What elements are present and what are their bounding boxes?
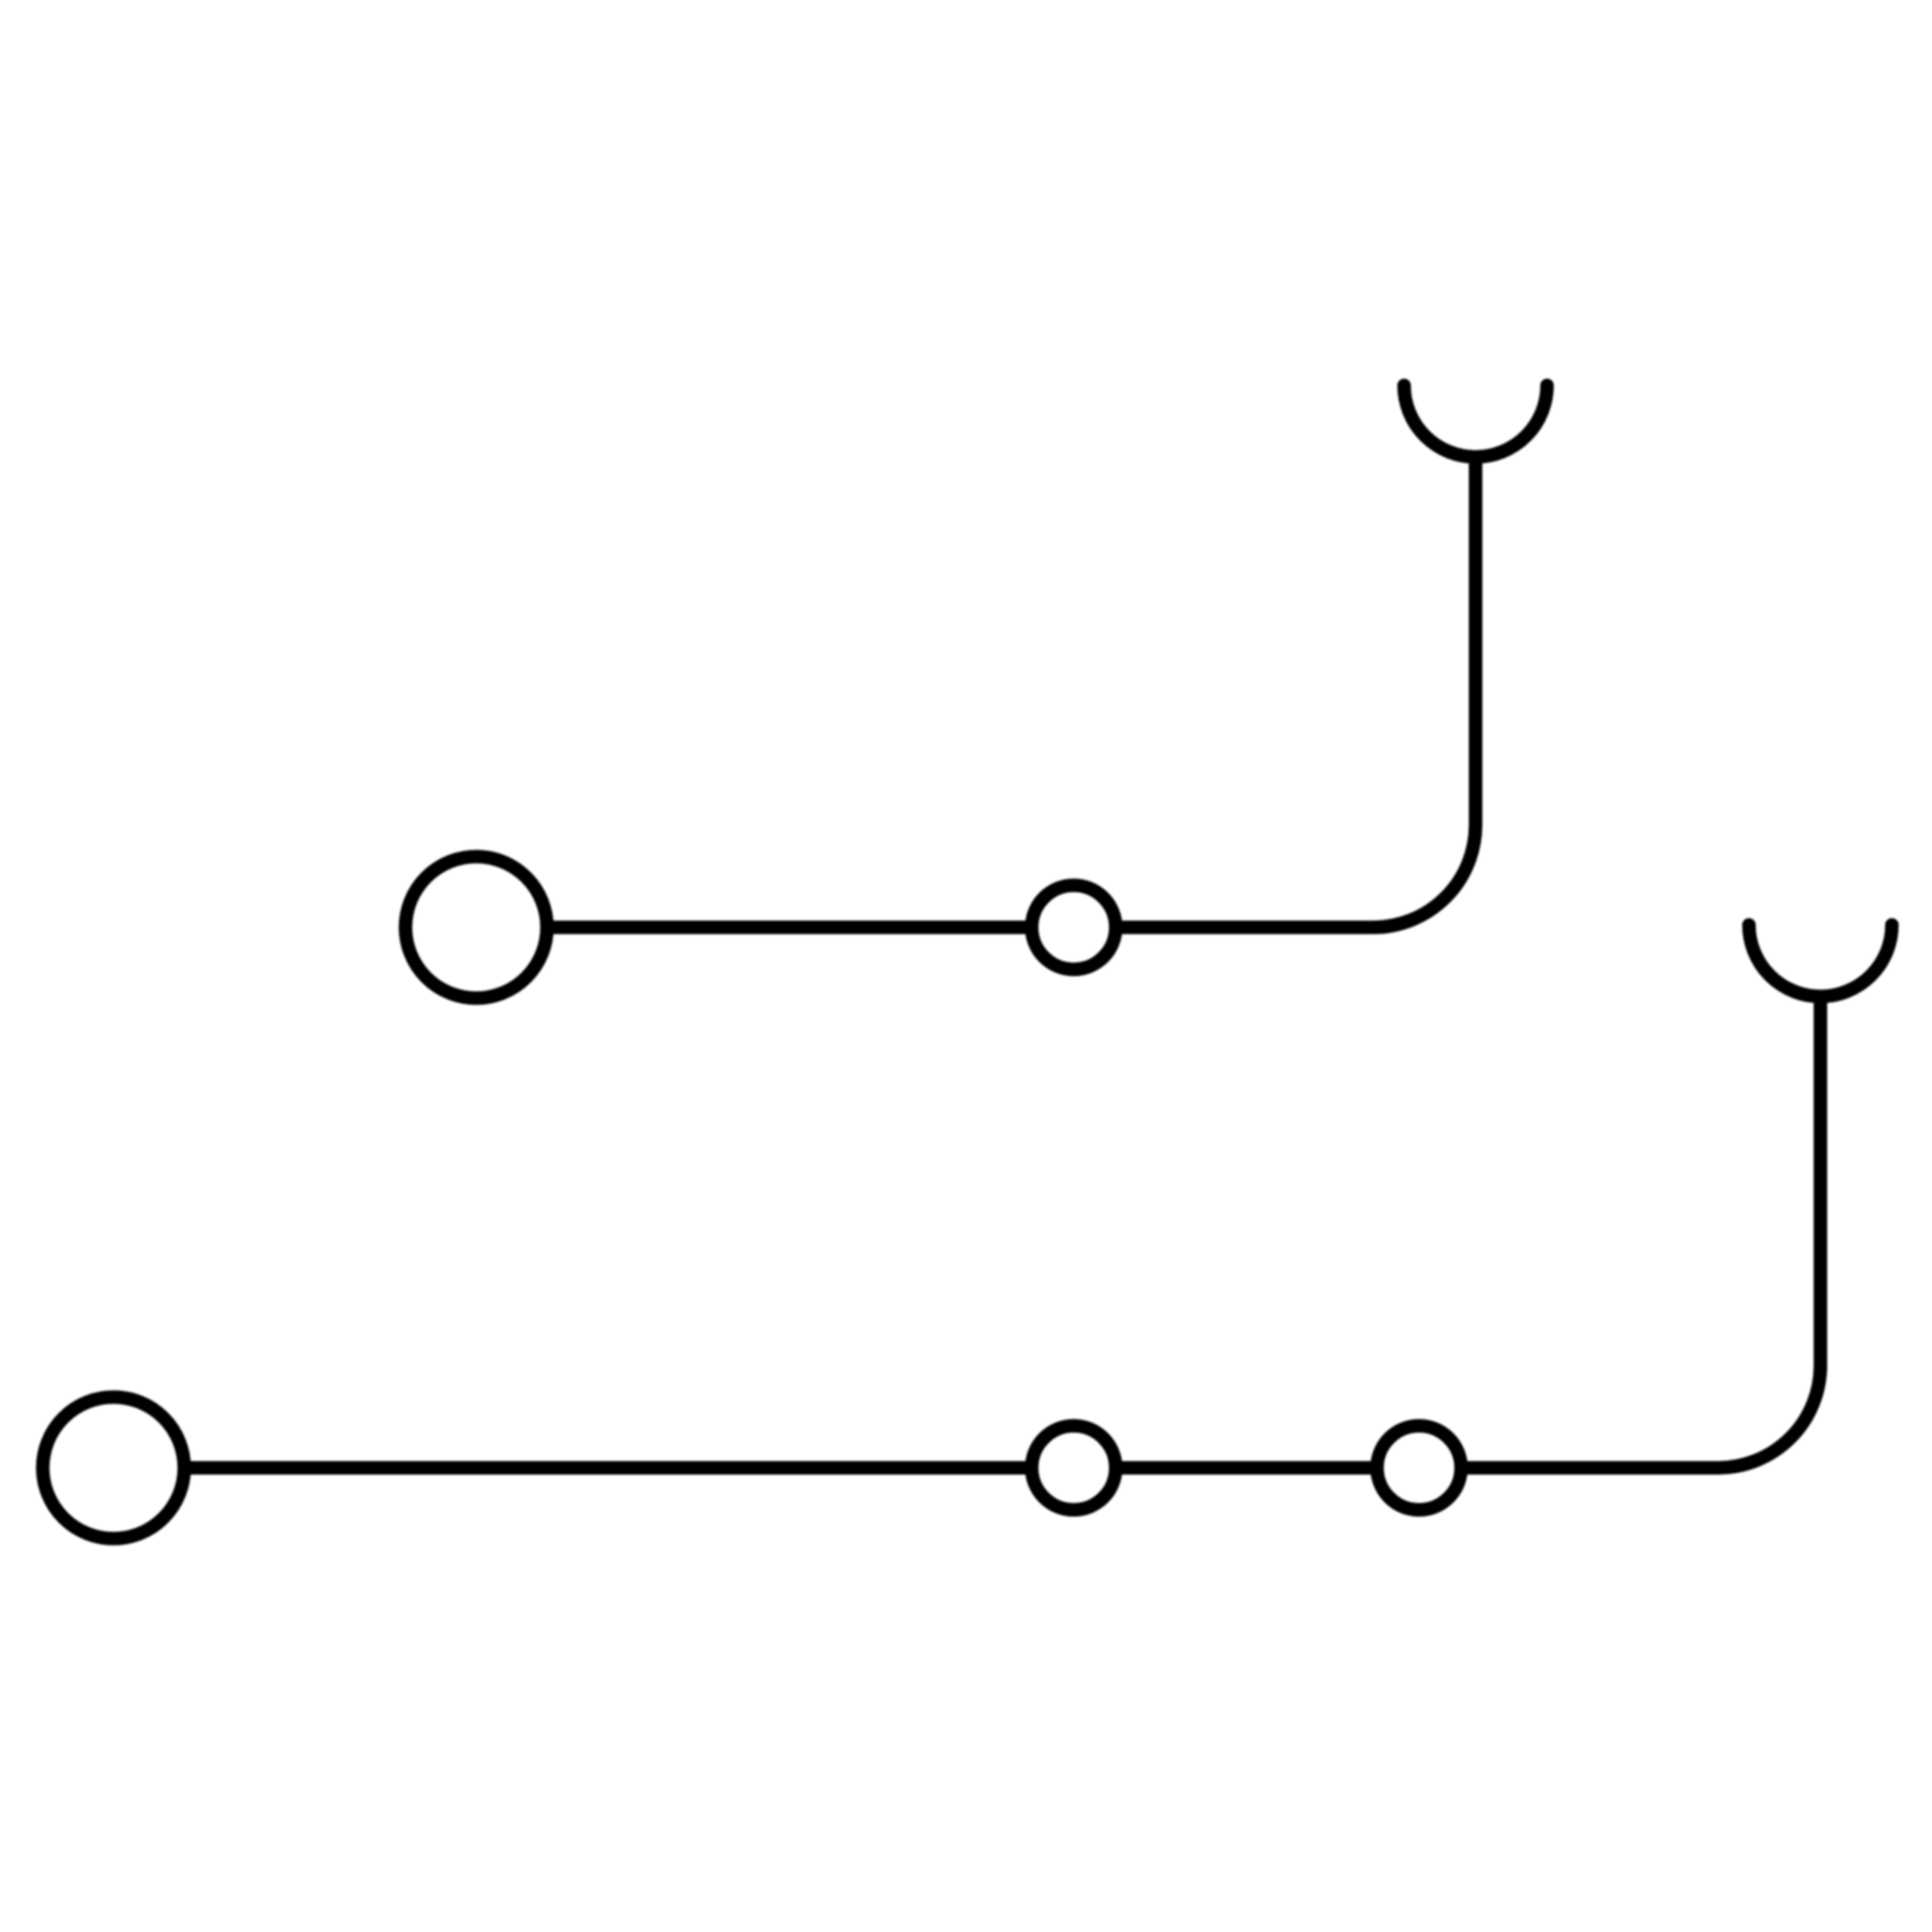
plug socket fork (lower level), open-up semicircle xyxy=(1749,925,1892,997)
terminal screw circle (large, lower level) xyxy=(43,1397,185,1539)
test/tap point circle (small, upper level) xyxy=(1032,886,1116,970)
terminal screw circle (large, upper level) xyxy=(406,857,548,999)
test/tap point circle 1 (small, lower level) xyxy=(1032,1426,1116,1510)
test/tap point circle 2 (small, lower level) xyxy=(1378,1426,1462,1510)
wire: upper-level conductor from left terminal, corner bend up to plug stem xyxy=(548,457,1476,927)
plug socket fork (upper level), open-up semicircle xyxy=(1405,385,1548,457)
wire: lower-level conductor from left terminal, corner bend up to plug stem xyxy=(185,997,1821,1468)
